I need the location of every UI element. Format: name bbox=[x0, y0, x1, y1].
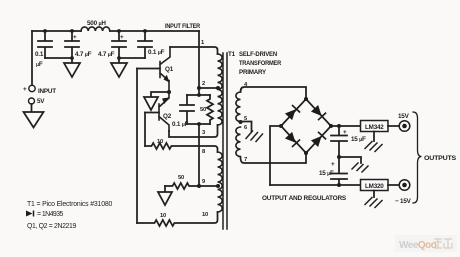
svg-text:SELF-DRIVEN: SELF-DRIVEN bbox=[239, 51, 278, 58]
node tank top bbox=[197, 93, 201, 97]
node junction gnd left filter bbox=[70, 56, 74, 60]
wire LM342 to output bbox=[388, 125, 399, 127]
ground feedback bbox=[158, 192, 172, 205]
wire Q2 collector to tap 3 bbox=[169, 131, 199, 137]
svg-text:2: 2 bbox=[202, 81, 205, 87]
node bridge left bbox=[279, 124, 283, 128]
node tap2 winding dot bbox=[216, 86, 220, 90]
node plus rail cap junction bbox=[337, 124, 341, 128]
resistor feedback 50 ground stub bbox=[164, 186, 166, 192]
svg-text:OUTPUT AND REGULATORS: OUTPUT AND REGULATORS bbox=[262, 195, 346, 202]
wire tank bottom rail bbox=[187, 123, 210, 125]
node secondary center tap bbox=[239, 120, 243, 124]
wire Q1 base bbox=[137, 68, 160, 70]
wire tank top stub bbox=[198, 88, 200, 95]
wire plus rail bbox=[331, 125, 361, 127]
ground LM320 stub bbox=[373, 191, 375, 198]
svg-text:INPUT FILTER: INPUT FILTER bbox=[165, 23, 201, 30]
capacitor C1 0.1uF bbox=[38, 31, 52, 58]
wire tank top rail bbox=[187, 94, 210, 96]
wire collector Q1 to tap 1 bbox=[170, 47, 218, 54]
svg-text:0.1 μF: 0.1 μF bbox=[148, 49, 165, 56]
transistor Q2 bbox=[159, 92, 169, 131]
node junction gnd right filter bbox=[117, 56, 121, 60]
terminal input plus bbox=[29, 85, 35, 91]
ground chassis LM320 bbox=[365, 198, 382, 208]
svg-text:5V: 5V bbox=[37, 98, 45, 105]
node bridge right bbox=[329, 124, 333, 128]
transistor Q1 emitter arrow bbox=[164, 75, 170, 83]
svg-text:+: + bbox=[120, 34, 124, 41]
resistor base Q2 10 bbox=[145, 143, 218, 152]
wire Q2 base bbox=[145, 112, 159, 114]
node tap9 left junction bbox=[197, 184, 201, 188]
svg-text:Q2: Q2 bbox=[163, 113, 172, 120]
capacitor C3 4.7uF bbox=[112, 31, 126, 58]
svg-text:10: 10 bbox=[157, 139, 163, 145]
svg-text:μF: μF bbox=[36, 61, 43, 68]
wire top input rail bbox=[32, 30, 199, 32]
svg-text:T1 = Pico Electronics #31080: T1 = Pico Electronics #31080 bbox=[27, 201, 113, 208]
inductor L1 500uH bbox=[81, 27, 110, 31]
ground input bbox=[24, 112, 44, 128]
resistor tank 50 bbox=[207, 95, 213, 124]
node junction cap C2 top bbox=[70, 29, 74, 33]
capacitor tank 0.1uF bbox=[180, 95, 194, 124]
bridge rectifier diamond bbox=[281, 99, 331, 153]
svg-text:LM342: LM342 bbox=[365, 124, 384, 131]
wire LM320 to output bbox=[388, 184, 399, 186]
wire tap 7 bbox=[241, 153, 307, 163]
svg-text:15 μF: 15 μF bbox=[319, 170, 334, 177]
ground filter right bbox=[111, 58, 127, 77]
transistor Q1 bbox=[160, 47, 170, 92]
svg-text:WeeQoo: WeeQoo bbox=[399, 240, 437, 251]
transformer T1 secondary upper winding bbox=[236, 92, 241, 122]
node junction emitters bbox=[167, 90, 171, 94]
wire secondary center tap to ground bbox=[241, 122, 252, 132]
node junction cap C4 top bbox=[143, 29, 147, 33]
svg-text:50: 50 bbox=[178, 175, 184, 181]
transformer core bbox=[223, 53, 227, 229]
capacitor C4 0.1uF bbox=[138, 31, 152, 58]
diode bridge bottom-left bbox=[285, 132, 300, 147]
svg-text:7: 7 bbox=[244, 157, 247, 163]
terminal output plus 15V bbox=[399, 121, 410, 132]
svg-text:− 15V: − 15V bbox=[395, 198, 412, 205]
node bridge bottom bbox=[304, 151, 308, 155]
svg-text:+: + bbox=[343, 129, 347, 136]
wire tap 9 bbox=[199, 185, 218, 187]
transformer T1 primary upper winding bbox=[218, 54, 223, 125]
wire emitters to ground bbox=[151, 92, 169, 97]
svg-text:50: 50 bbox=[200, 107, 206, 113]
ground emitters bbox=[144, 97, 158, 110]
ground filter left bbox=[64, 58, 80, 77]
svg-text:500 μH: 500 μH bbox=[87, 20, 106, 27]
svg-text:T1: T1 bbox=[228, 51, 236, 58]
brace outputs bbox=[413, 112, 422, 203]
node midpoint caps bbox=[337, 155, 341, 159]
svg-text:Q1: Q1 bbox=[165, 66, 174, 73]
svg-text:TRANSFORMER: TRANSFORMER bbox=[239, 60, 282, 67]
wire main vertical tank to tap9 bbox=[198, 124, 200, 186]
regulator U2 LM342 box bbox=[361, 121, 389, 132]
node tap9 winding dot bbox=[216, 184, 220, 188]
svg-text:15V: 15V bbox=[398, 113, 410, 120]
note diode symbol bbox=[26, 211, 33, 217]
svg-text:= 1N4935: = 1N4935 bbox=[37, 211, 64, 218]
capacitor output 15uF upper bbox=[331, 126, 347, 157]
diode bridge bottom-right bbox=[311, 132, 326, 147]
wire primary upper to tap3 bbox=[199, 125, 218, 137]
ground LM342 stub bbox=[373, 132, 375, 142]
resistor base Q1 10 bottom bbox=[137, 212, 218, 226]
svg-text:15 μF: 15 μF bbox=[351, 136, 366, 143]
watermark bbox=[395, 235, 457, 252]
svg-text:+: + bbox=[73, 34, 77, 41]
wire tap 2 bbox=[199, 87, 218, 89]
capacitor C2 4.7uF bbox=[65, 31, 79, 58]
svg-text:PRIMARY: PRIMARY bbox=[239, 69, 267, 76]
wire caps midpoint to ground bbox=[339, 157, 361, 163]
svg-text:Q1, Q2 = 2N2219: Q1, Q2 = 2N2219 bbox=[27, 223, 77, 230]
ground chassis caps bbox=[352, 163, 368, 172]
wire Q2 base drop bbox=[144, 113, 146, 147]
regulator U3 LM320 box bbox=[361, 180, 389, 191]
svg-text:+: + bbox=[331, 161, 335, 168]
svg-text:OUTPUTS: OUTPUTS bbox=[424, 155, 456, 162]
ground chassis secondary bbox=[246, 131, 263, 142]
terminal input return bbox=[29, 98, 35, 104]
svg-text:0.1 μF: 0.1 μF bbox=[172, 121, 189, 128]
svg-text:4.7 μF: 4.7 μF bbox=[75, 51, 92, 58]
node tap2 junction bbox=[197, 86, 201, 90]
terminal output minus 15V bbox=[399, 180, 410, 191]
svg-text:10: 10 bbox=[202, 212, 208, 218]
svg-text:+: + bbox=[23, 86, 27, 93]
wire tap 4 bbox=[241, 87, 307, 99]
capacitor output 15uF lower bbox=[331, 157, 347, 185]
svg-text:10: 10 bbox=[160, 213, 166, 219]
diode bridge top-right bbox=[311, 105, 326, 120]
wire cap bottom bar right bbox=[119, 57, 145, 59]
wire bridge left to minus rail bbox=[270, 126, 281, 185]
node junction cap C1 top bbox=[43, 29, 47, 33]
transformer T1 primary lower winding bbox=[218, 152, 223, 212]
node minus rail cap junction bbox=[337, 183, 341, 187]
svg-text:4.7 μF: 4.7 μF bbox=[98, 51, 115, 58]
svg-text:0.1: 0.1 bbox=[35, 51, 44, 58]
transistor Q2 emitter arrow bbox=[162, 98, 169, 105]
wire cap bottom bar left bbox=[45, 57, 72, 59]
wire left input drop bbox=[31, 31, 33, 85]
node tank bottom bbox=[197, 122, 201, 126]
resistor feedback 50 bbox=[165, 183, 199, 189]
diode bridge top-left bbox=[285, 105, 300, 120]
wire base rail Q1 bbox=[136, 69, 138, 224]
ground chassis LM342 bbox=[365, 142, 382, 152]
transformer T1 secondary lower winding bbox=[236, 127, 241, 157]
node junction cap C3 top bbox=[117, 29, 121, 33]
wire main vertical node 2 feed bbox=[198, 31, 200, 88]
node bridge top bbox=[304, 97, 308, 101]
svg-text:INPUT: INPUT bbox=[38, 88, 56, 95]
wire minus rail bbox=[270, 184, 361, 186]
svg-text:LM320: LM320 bbox=[365, 183, 384, 190]
wire input return to ground bbox=[31, 104, 33, 112]
